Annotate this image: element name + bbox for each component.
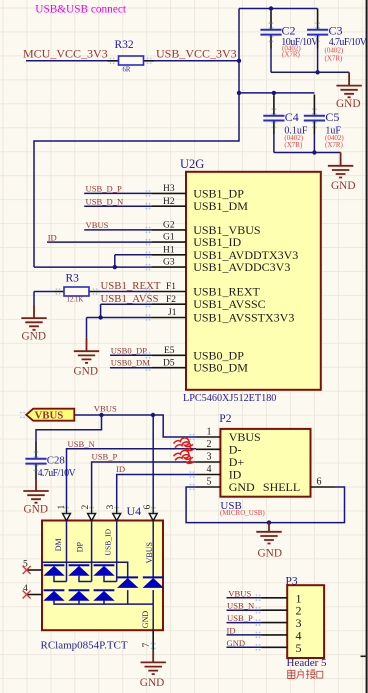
svg-text:USB0_DM: USB0_DM: [111, 358, 151, 368]
sheet border right edge: [366, 0, 368, 693]
wire USB_VCC_3V3: [154, 60, 240, 62]
junction C2 tap: [269, 6, 273, 10]
svg-text:GND: GND: [24, 503, 48, 515]
svg-text:P2: P2: [219, 413, 231, 425]
svg-text:GND: GND: [331, 180, 355, 192]
wire MCU_VCC_3V3: [26, 60, 108, 62]
ground GND below C28: [35, 480, 37, 492]
port VBUS: [26, 409, 74, 421]
svg-text:GND: GND: [22, 330, 46, 342]
pin 3 U4: [113, 506, 121, 520]
svg-text:USB_P: USB_P: [92, 452, 118, 462]
junction C3 bottom: [315, 70, 319, 74]
svg-text:GND: GND: [258, 547, 282, 559]
svg-text:12.1K: 12.1K: [67, 297, 84, 304]
capacitor C3: [317, 9, 319, 30]
wire USB_D_N: [84, 205, 152, 207]
pin 4 P3: [262, 634, 288, 636]
wire F2: [101, 303, 152, 305]
svg-text:U4: U4: [127, 504, 142, 518]
diode D3a: [93, 565, 114, 576]
svg-text:6: 6: [317, 477, 322, 488]
wire top rail to C2 C3: [239, 8, 318, 10]
svg-text:G2: G2: [163, 221, 175, 231]
svg-text:4.7uF/10V: 4.7uF/10V: [38, 468, 77, 479]
svg-text:D5: D5: [163, 358, 175, 368]
svg-text:USB1_AVSSTX3V3: USB1_AVSSTX3V3: [193, 311, 294, 325]
svg-text:DP: DP: [75, 542, 84, 553]
wire USB_N: [67, 449, 197, 507]
wire F1 from R3: [100, 291, 152, 293]
pin 5 P3: [262, 646, 288, 648]
svg-text:R3: R3: [66, 272, 80, 284]
svg-text:USB_N: USB_N: [68, 439, 96, 449]
wire G3 3V3: [34, 266, 152, 268]
svg-text:H3: H3: [163, 184, 175, 194]
ground GND below U4: [152, 651, 154, 663]
junction C5 bottom: [312, 150, 316, 154]
sheet border zone tick: [361, 656, 366, 658]
capacitor C2: [270, 9, 272, 12]
junction on USB_VCC_3V3: [237, 59, 241, 63]
wire J1: [87, 317, 153, 319]
pin 1 P3: [262, 597, 288, 599]
pin H1: [152, 254, 186, 256]
svg-text:USB0_DM: USB0_DM: [193, 361, 248, 375]
wire pin1 internal: [66, 521, 68, 582]
svg-text:2: 2: [207, 439, 212, 450]
wire USB0_DP: [110, 354, 152, 356]
pin J1: [152, 317, 186, 319]
pin G1: [152, 241, 186, 243]
pin 1 U4: [63, 506, 71, 520]
pin 5 U4 no connect: [27, 569, 42, 571]
wire ID to G1: [47, 241, 152, 243]
svg-text:E5: E5: [164, 346, 175, 356]
svg-text:J1: J1: [168, 308, 177, 318]
pin G2: [152, 229, 186, 231]
svg-text:3: 3: [207, 452, 212, 463]
U4 internal bottom rail: [54, 590, 153, 604]
svg-text:C3: C3: [329, 23, 343, 37]
diode D2b: [68, 590, 89, 601]
svg-text:7: 7: [142, 643, 152, 648]
svg-text:H1: H1: [163, 245, 175, 255]
pin F2: [152, 303, 186, 305]
capacitor C28: [36, 415, 102, 442]
svg-text:R32: R32: [115, 39, 134, 51]
wire pin6 internal: [152, 521, 154, 577]
pin 5 P2: [196, 486, 220, 488]
U4 internal rail top: [42, 562, 128, 577]
chip U2G body: [186, 172, 321, 390]
wire F2 to J1 stub: [100, 304, 102, 317]
svg-text:USB1_AVDDC3V3: USB1_AVDDC3V3: [193, 260, 290, 274]
svg-text:1: 1: [207, 427, 212, 438]
svg-text:DM: DM: [54, 538, 63, 551]
svg-text:(X7R): (X7R): [325, 141, 344, 149]
junction J1: [98, 315, 102, 319]
junction C4 tap: [272, 91, 276, 95]
svg-text:USB_D_N: USB_D_N: [86, 196, 125, 206]
svg-text:(X7R): (X7R): [284, 141, 303, 149]
svg-text:ID: ID: [116, 464, 125, 474]
wire VBUS to U4 pin6: [152, 415, 154, 507]
svg-text:(MICRO_USB): (MICRO_USB): [220, 509, 265, 517]
svg-text:RClamp0854P.TCT: RClamp0854P.TCT: [41, 639, 128, 651]
diode D1a: [43, 565, 64, 576]
pin H2: [152, 205, 186, 207]
svg-text:VBUS: VBUS: [86, 220, 109, 230]
wire USB_D_P: [84, 192, 152, 194]
differential pair marker pin3: [174, 451, 195, 464]
wire diode midpoint column2: [79, 576, 92, 582]
svg-text:USB_ID: USB_ID: [104, 528, 113, 555]
svg-text:USB0_DP: USB0_DP: [111, 345, 148, 355]
svg-text:GND: GND: [227, 638, 246, 648]
pin 2 P3: [262, 609, 288, 611]
svg-text:F1: F1: [166, 282, 176, 292]
wire diode midpoint column3: [104, 576, 117, 582]
svg-text:GND: GND: [140, 677, 164, 689]
pin 4 U4 no connect: [27, 594, 42, 596]
wire pin3 internal: [116, 521, 118, 582]
wire pin2 internal: [91, 521, 93, 582]
diode D5: [143, 577, 164, 588]
svg-text:6R: 6R: [123, 66, 131, 73]
pin 2 P2: [196, 448, 220, 450]
pin E5: [152, 354, 186, 356]
wire VBUS to G2: [84, 229, 152, 231]
junction GND: [267, 520, 271, 524]
diode D1b: [43, 590, 64, 601]
svg-text:1: 1: [57, 505, 67, 510]
svg-text:4: 4: [207, 464, 212, 475]
wire diode midpoint column1: [54, 576, 67, 582]
svg-text:VBUS: VBUS: [35, 410, 64, 422]
junction G3: [113, 265, 117, 269]
diode D4: [117, 577, 138, 588]
pin 3 P3: [262, 622, 288, 624]
pin 6 P2: [311, 486, 336, 488]
svg-text:USB&USB connect: USB&USB connect: [35, 4, 127, 16]
svg-text:ID: ID: [227, 625, 236, 635]
svg-text:LPC5460XJ512ET180: LPC5460XJ512ET180: [183, 393, 276, 404]
diode D2a: [68, 565, 89, 576]
pin 3 P2: [196, 461, 220, 463]
differential pair marker pin2: [174, 438, 195, 451]
svg-text:VBUS: VBUS: [94, 404, 117, 414]
svg-text:C28: C28: [47, 454, 65, 466]
pin H3: [152, 192, 186, 194]
svg-text:GND: GND: [336, 98, 360, 110]
ground GND below C4 C5: [340, 153, 342, 166]
svg-text:U2G: U2G: [180, 157, 204, 171]
svg-text:GND: GND: [141, 611, 150, 629]
svg-text:USB_D_P: USB_D_P: [86, 184, 123, 194]
svg-text:(X7R): (X7R): [282, 50, 301, 58]
svg-text:MCU_VCC_3V3: MCU_VCC_3V3: [23, 47, 108, 61]
connector P2 body: [220, 429, 310, 497]
svg-text:G1: G1: [163, 233, 175, 243]
svg-text:C5: C5: [325, 110, 339, 124]
svg-text:GND: GND: [74, 366, 98, 378]
junction U4 pin6 tap: [151, 413, 155, 417]
svg-text:(0402): (0402): [325, 47, 344, 55]
pin 6 U4: [149, 506, 157, 520]
svg-text:Header 5: Header 5: [287, 657, 328, 669]
pin G3: [152, 266, 186, 268]
wire 3V3 vertical riser: [34, 9, 239, 268]
wire USB0_DM: [110, 367, 152, 369]
pin 2 U4: [88, 506, 96, 520]
ground GND top right: [348, 72, 350, 85]
junction C28 tap: [99, 413, 103, 417]
svg-text:GND: GND: [229, 480, 255, 494]
wire C4 C5 bottom rail: [274, 152, 341, 154]
capacitor C4: [273, 93, 275, 96]
wire P2 GND net: [186, 487, 344, 523]
svg-text:USB1_REXT: USB1_REXT: [101, 280, 161, 292]
wire U4 GND internal: [152, 604, 154, 630]
svg-text:USB1_AVSSC: USB1_AVSSC: [193, 297, 265, 311]
svg-text:USB_VCC_3V3: USB_VCC_3V3: [156, 47, 237, 61]
wire H1 3V3: [115, 254, 152, 256]
label user interface chinese: [288, 669, 323, 678]
wire H1 to G3 stub: [114, 255, 116, 267]
resistor R32: [108, 60, 155, 62]
svg-text:VBUS: VBUS: [228, 588, 251, 598]
svg-text:USB1_DM: USB1_DM: [193, 199, 248, 213]
svg-text:G3: G3: [163, 258, 175, 268]
wire endpoint markers: [20, 22, 320, 650]
pin 1 P2: [196, 436, 220, 438]
wire C2 C3 bottom rail: [271, 71, 349, 73]
wire ID to U4: [117, 475, 196, 507]
junction riser C4 rail: [237, 91, 241, 95]
svg-text:USB_N: USB_N: [227, 601, 255, 611]
ground GND below J1 wire: [86, 318, 88, 338]
wire USB_P: [92, 462, 196, 507]
svg-text:C4: C4: [285, 110, 299, 124]
capacitor C5: [313, 95, 315, 115]
svg-text:SHELL: SHELL: [263, 480, 300, 494]
pin 4 P2: [196, 474, 220, 476]
wire C4 C5 top rail: [239, 92, 314, 94]
pin F1: [152, 291, 186, 293]
svg-text:C2: C2: [282, 23, 296, 37]
pin 7 U4: [152, 630, 154, 651]
svg-text:(X7R): (X7R): [325, 55, 344, 63]
svg-text:5: 5: [296, 641, 302, 655]
svg-text:H2: H2: [163, 197, 175, 207]
ground GND below R3: [33, 292, 35, 306]
chip U4 body: [42, 521, 163, 631]
svg-text:F2: F2: [166, 295, 176, 305]
svg-text:USB_P: USB_P: [227, 613, 253, 623]
connector P3 body: [287, 585, 324, 658]
wire VBUS rail: [74, 415, 196, 437]
diode D3b: [93, 590, 114, 601]
pin D5: [152, 367, 186, 369]
ground GND below P2: [268, 523, 270, 532]
svg-text:ID: ID: [48, 232, 57, 242]
svg-text:5: 5: [207, 477, 212, 488]
